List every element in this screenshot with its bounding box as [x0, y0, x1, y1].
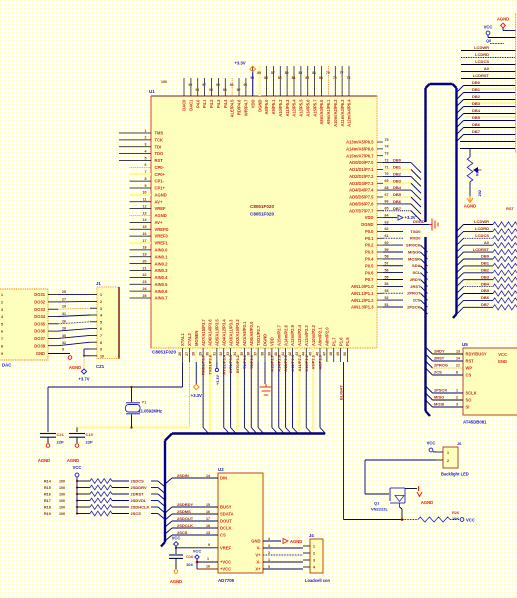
- svg-text:2: 2: [447, 459, 449, 463]
- svg-text:16: 16: [206, 565, 210, 569]
- svg-text:9: 9: [1, 352, 3, 356]
- svg-text:R14: R14: [44, 480, 52, 484]
- svg-text:48: 48: [329, 352, 333, 356]
- svg-text:AIN1.2/P1.2: AIN1.2/P1.2: [351, 298, 374, 303]
- ic U2 right pins: [251, 537, 270, 572]
- svg-text:2PSCK: 2PSCK: [407, 304, 420, 309]
- svg-text:DB6: DB6: [481, 295, 490, 300]
- svg-text:DB3: DB3: [481, 274, 490, 279]
- svg-text:P0.3: P0.3: [365, 250, 374, 255]
- svg-text:2CS: 2CS: [413, 298, 421, 303]
- svg-text:16: 16: [143, 232, 147, 236]
- svg-text:DAC0: DAC0: [182, 99, 187, 111]
- svg-text:A15/P5.7: A15/P5.7: [312, 99, 317, 117]
- svg-text:A15/P2.7: A15/P2.7: [269, 354, 274, 371]
- svg-text:WR/P4.7: WR/P4.7: [243, 99, 248, 116]
- svg-text:100: 100: [161, 80, 167, 84]
- svg-text:53: 53: [385, 289, 389, 293]
- svg-text:BUSY: BUSY: [220, 505, 232, 510]
- svg-text:31: 31: [212, 352, 216, 356]
- svg-text:AIN0.4: AIN0.4: [155, 275, 169, 280]
- svg-text:Backlight LED: Backlight LED: [441, 472, 469, 477]
- svg-text:AGND: AGND: [170, 579, 182, 584]
- svg-text:DB7: DB7: [472, 129, 481, 134]
- svg-text:4: 4: [1, 315, 3, 319]
- svg-text:AV+: AV+: [155, 199, 163, 204]
- svg-text:P0.4: P0.4: [365, 257, 374, 262]
- capacitor C19 22P: [69, 428, 94, 445]
- svg-text:MONEN: MONEN: [194, 331, 199, 346]
- svg-text:AD7/A15/P3.7: AD7/A15/P3.7: [201, 319, 206, 346]
- ic U1 top pins 100-76: [161, 66, 352, 127]
- svg-text:15: 15: [143, 225, 147, 229]
- svg-text:10K: 10K: [452, 516, 459, 521]
- svg-text:ALE/P4.5: ALE/P4.5: [230, 99, 235, 118]
- svg-text:R19: R19: [44, 512, 51, 516]
- lcd module edge cut off: [516, 14, 517, 152]
- svg-text:DB5: DB5: [393, 192, 402, 197]
- svg-text:76: 76: [347, 76, 351, 80]
- svg-text:100: 100: [59, 512, 65, 516]
- svg-text:51: 51: [385, 303, 389, 307]
- svg-text:21: 21: [143, 266, 147, 270]
- svg-text:AGND: AGND: [155, 213, 167, 218]
- svg-text:5: 5: [268, 565, 270, 569]
- svg-text:V-: V-: [257, 546, 262, 551]
- svg-text:P1.7: P1.7: [331, 337, 336, 346]
- svg-text:1: 1: [100, 293, 102, 297]
- svg-text:TCK: TCK: [155, 137, 164, 142]
- svg-text:X-: X-: [256, 560, 261, 565]
- svg-text:A13/P5.5: A13/P5.5: [299, 99, 304, 117]
- resistor array wire DB7 to lcd: [457, 302, 517, 314]
- svg-text:AD7705: AD7705: [218, 578, 235, 583]
- svg-text:1: 1: [268, 558, 270, 562]
- svg-text:14: 14: [143, 218, 147, 222]
- svg-text:C8051F020: C8051F020: [152, 350, 176, 355]
- power port +3.3V on U1 VDD right: [383, 215, 416, 220]
- svg-text:202: 202: [478, 190, 482, 196]
- svg-text:100: 100: [59, 506, 65, 510]
- svg-text:GND: GND: [36, 351, 45, 356]
- svg-text:97: 97: [202, 83, 206, 87]
- resistor array wire DB6 to lcd: [457, 295, 517, 307]
- svg-text:32: 32: [62, 341, 66, 345]
- svg-text:A15m/P2.7: A15m/P2.7: [276, 324, 281, 346]
- svg-text:DB0: DB0: [481, 254, 490, 259]
- svg-text:CP1+: CP1+: [155, 186, 166, 191]
- svg-text:DB7: DB7: [481, 302, 490, 307]
- svg-text:47: 47: [322, 352, 326, 356]
- wire XTAL1 net: [48, 362, 183, 432]
- svg-text:26: 26: [62, 319, 66, 323]
- svg-text:2SDDRV: 2SDDRV: [131, 485, 147, 490]
- svg-text:9: 9: [208, 543, 210, 547]
- svg-text:J1: J1: [96, 281, 101, 286]
- svg-text:GND: GND: [498, 359, 507, 364]
- svg-text:SDATA: SDATA: [220, 512, 234, 517]
- svg-text:A10m/P2.2: A10m/P2.2: [311, 324, 316, 346]
- svg-text:96: 96: [209, 88, 213, 92]
- resistor array wire LCDRST to lcd: [457, 247, 517, 259]
- svg-text:2SDOUT: 2SDOUT: [177, 516, 194, 521]
- svg-text:A0: A0: [484, 240, 490, 245]
- svg-text:TXD1/P3.6: TXD1/P3.6: [208, 354, 213, 374]
- svg-text:R18: R18: [44, 506, 51, 510]
- svg-text:AIN1.1/P1.1: AIN1.1/P1.1: [351, 291, 374, 296]
- svg-text:AD6/A14/P3.6: AD6/A14/P3.6: [208, 319, 213, 346]
- svg-text:+3.3V: +3.3V: [191, 393, 202, 398]
- svg-text:AGND: AGND: [421, 500, 433, 505]
- svg-text:INT1/P3.3: INT1/P3.3: [228, 354, 233, 373]
- svg-text:A11m/A3/P6.3: A11m/A3/P6.3: [340, 99, 345, 127]
- svg-text:A10/P2.2: A10/P2.2: [304, 354, 309, 371]
- svg-text:VREF0: VREF0: [155, 234, 169, 239]
- svg-text:91: 91: [244, 83, 248, 87]
- svg-text:DB4: DB4: [472, 108, 481, 113]
- digital ground symbol below U1: [260, 362, 273, 395]
- power port +3.3V top of U1: [234, 61, 255, 97]
- ic U5 left pins with bus entries: [426, 347, 487, 410]
- svg-text:2SDMS: 2SDMS: [177, 509, 191, 514]
- svg-text:AD3/A11/P3.3: AD3/A11/P3.3: [228, 319, 233, 346]
- svg-text:A13/P2.5: A13/P2.5: [283, 354, 288, 371]
- svg-text:100: 100: [59, 493, 65, 497]
- capacitor C21 22P: [40, 432, 65, 445]
- wires U2 to loadcell connector: [263, 548, 303, 569]
- svg-text:RDY/BUSY: RDY/BUSY: [466, 352, 487, 357]
- power port AGND below potentiometer: [464, 196, 476, 209]
- svg-text:A9/P2.1: A9/P2.1: [311, 354, 316, 369]
- svg-text:LCDRST: LCDRST: [473, 247, 490, 252]
- svg-text:5: 5: [1, 322, 3, 326]
- svg-text:P4.4: P4.4: [223, 99, 228, 108]
- svg-text:A12/P5.4: A12/P5.4: [292, 99, 297, 117]
- svg-text:7: 7: [1, 337, 3, 341]
- svg-text:5: 5: [100, 320, 102, 324]
- resistor R16 100: [44, 492, 165, 501]
- resistor array wire DB0 to lcd: [457, 254, 517, 266]
- svg-text:TMS: TMS: [155, 131, 164, 136]
- resistor R19 100: [44, 511, 165, 520]
- svg-text:J4: J4: [309, 533, 314, 538]
- svg-text:AIN0.1: AIN0.1: [155, 254, 169, 259]
- svg-text:AIN0.6: AIN0.6: [155, 289, 169, 294]
- power port VCC to U2 +VCC pins: [193, 549, 218, 570]
- svg-text:7: 7: [100, 334, 102, 338]
- svg-text:+3.3V: +3.3V: [216, 375, 220, 385]
- svg-text:AD4/D4/P7.4: AD4/D4/P7.4: [349, 188, 374, 193]
- svg-text:3: 3: [268, 544, 270, 548]
- svg-text:A11/P5.3: A11/P5.3: [285, 99, 290, 117]
- svg-text:2SCS: 2SCS: [131, 511, 142, 516]
- svg-text:DAC1: DAC1: [188, 99, 193, 111]
- svg-text:SO: SO: [466, 398, 473, 403]
- capacitor C10 104 on VREF: [169, 548, 194, 569]
- svg-text:DO31: DO31: [34, 292, 45, 297]
- svg-text:V+: V+: [255, 553, 261, 558]
- wire DAC GND to AGND port: [48, 348, 81, 371]
- svg-text:AGND: AGND: [290, 539, 302, 544]
- svg-text:AD7/D7/P7.7: AD7/D7/P7.7: [349, 208, 374, 213]
- svg-text:AD1/D1/P7.1: AD1/D1/P7.1: [349, 167, 374, 172]
- svg-text:2RST: 2RST: [410, 284, 421, 289]
- svg-text:2SDCLK: 2SDCLK: [177, 523, 193, 528]
- svg-text:DAC: DAC: [2, 363, 11, 368]
- svg-text:P1.6: P1.6: [338, 337, 343, 346]
- svg-text:1: 1: [1, 293, 3, 297]
- svg-text:8: 8: [145, 177, 147, 181]
- svg-text:DO35: DO35: [34, 321, 45, 326]
- svg-text:2RST: 2RST: [434, 356, 445, 361]
- svg-text:DB1: DB1: [393, 165, 402, 170]
- svg-text:2DRST: 2DRST: [131, 492, 145, 497]
- svg-text:13: 13: [206, 531, 210, 535]
- svg-text:LCDWR: LCDWR: [474, 45, 489, 50]
- svg-text:99: 99: [189, 83, 193, 87]
- svg-text:9: 9: [62, 348, 64, 352]
- svg-text:DB7: DB7: [393, 206, 402, 211]
- svg-text:SI: SI: [466, 405, 470, 410]
- svg-text:CS: CS: [220, 533, 226, 538]
- svg-text:38: 38: [260, 352, 264, 356]
- svg-text:VDD: VDD: [365, 215, 374, 220]
- svg-text:81: 81: [312, 71, 316, 75]
- svg-text:61: 61: [385, 234, 389, 238]
- svg-text:DB2: DB2: [481, 268, 490, 273]
- ic U1 right pins: [346, 138, 388, 310]
- svg-text:AGND: AGND: [497, 17, 509, 22]
- svg-text:104: 104: [186, 562, 193, 567]
- svg-text:84: 84: [292, 76, 296, 80]
- svg-text:85: 85: [285, 71, 289, 75]
- ic U2 AD7705 body: [218, 467, 263, 583]
- svg-text:52: 52: [385, 296, 389, 300]
- svg-text:31: 31: [62, 312, 66, 316]
- svg-text:2PROG: 2PROG: [434, 363, 448, 368]
- ic U5 AT45DB081 dataflash body: [462, 342, 517, 425]
- svg-text:8: 8: [1, 344, 3, 348]
- svg-text:9: 9: [145, 184, 147, 188]
- power port +3.3V below U1 MONEN pin: [191, 362, 202, 398]
- svg-text:24: 24: [143, 287, 147, 291]
- svg-text:2CS: 2CS: [434, 370, 442, 375]
- resistor R15 100: [44, 485, 165, 494]
- svg-text:DGND: DGND: [413, 219, 425, 224]
- svg-text:VCC: VCC: [427, 441, 436, 446]
- svg-text:94: 94: [223, 88, 227, 92]
- ic DAC partial at left edge: [0, 289, 48, 368]
- svg-text:22P: 22P: [86, 440, 93, 445]
- svg-text:AIN0.2: AIN0.2: [155, 261, 169, 266]
- svg-text:A11m/P2.3: A11m/P2.3: [304, 325, 309, 346]
- svg-text:DB1: DB1: [481, 261, 490, 266]
- svg-text:C21: C21: [57, 432, 65, 437]
- svg-text:RST: RST: [506, 206, 515, 211]
- svg-text:DB2: DB2: [472, 94, 481, 99]
- svg-text:27: 27: [62, 297, 66, 301]
- svg-text:DO32: DO32: [34, 300, 45, 305]
- svg-text:A12/P2.4: A12/P2.4: [290, 354, 295, 371]
- svg-text:AD0/D0/P7.0: AD0/D0/P7.0: [349, 160, 374, 165]
- resistor array wire LCDCS to lcd: [457, 233, 517, 245]
- svg-text:1: 1: [145, 129, 147, 133]
- power port AGND below C19: [67, 444, 79, 463]
- power port AGND below C21: [38, 444, 50, 463]
- svg-text:DGND: DGND: [263, 334, 268, 346]
- svg-text:DB6: DB6: [393, 199, 402, 204]
- svg-text:16: 16: [206, 510, 210, 514]
- svg-text:87: 87: [271, 71, 275, 75]
- svg-text:63: 63: [385, 220, 389, 224]
- svg-text:2SDIN: 2SDIN: [177, 473, 189, 478]
- svg-text:9: 9: [100, 348, 102, 352]
- svg-text:LCDCS: LCDCS: [475, 59, 489, 64]
- power port VCC top right: [484, 25, 517, 38]
- svg-text:2: 2: [100, 300, 102, 304]
- svg-text:DB1: DB1: [472, 87, 481, 92]
- svg-text:100: 100: [59, 499, 65, 503]
- svg-text:DIN: DIN: [220, 476, 227, 481]
- svg-text:VREFD: VREFD: [155, 227, 169, 232]
- resistor R17 100: [44, 498, 165, 507]
- svg-text:MISO0: MISO0: [408, 249, 421, 254]
- svg-text:23: 23: [143, 280, 147, 284]
- svg-text:13: 13: [456, 350, 460, 354]
- lcd module connector wires top right: [457, 45, 517, 148]
- svg-text:DB2: DB2: [393, 171, 402, 176]
- svg-text:DO37: DO37: [34, 336, 45, 341]
- svg-text:DO38: DO38: [34, 343, 45, 348]
- svg-text:28: 28: [62, 327, 66, 331]
- svg-text:6: 6: [1, 330, 3, 334]
- svg-text:DGND: DGND: [361, 222, 373, 227]
- svg-text:29: 29: [62, 305, 66, 309]
- svg-text:C19: C19: [86, 432, 94, 437]
- power port AGND below C10: [170, 570, 182, 584]
- svg-text:A8m/P2.0: A8m/P2.0: [325, 327, 330, 346]
- svg-text:C8051F020: C8051F020: [250, 212, 274, 217]
- svg-text:P1.5: P1.5: [345, 337, 350, 346]
- svg-text:2SDVDL: 2SDVDL: [131, 498, 147, 503]
- svg-text:AD3/D3/P7.3: AD3/D3/P7.3: [349, 181, 374, 186]
- wires DAC to J1: [48, 290, 90, 346]
- svg-text:A10/P5.2: A10/P5.2: [278, 99, 283, 117]
- svg-text:P4.3: P4.3: [216, 99, 221, 108]
- svg-text:80: 80: [319, 76, 323, 80]
- svg-text:2PROT: 2PROT: [407, 291, 421, 296]
- resistor array wire DB4 to lcd: [457, 281, 517, 293]
- svg-text:77: 77: [340, 71, 344, 75]
- svg-text:DO34: DO34: [34, 314, 45, 319]
- svg-text:RST: RST: [155, 158, 164, 163]
- svg-text:C8051F020: C8051F020: [250, 204, 274, 209]
- svg-text:AGND: AGND: [464, 204, 476, 209]
- svg-text:55: 55: [385, 275, 389, 279]
- svg-text:2: 2: [456, 396, 458, 400]
- svg-text:VCC: VCC: [193, 549, 202, 554]
- svg-text:57: 57: [385, 262, 389, 266]
- svg-text:A14m/P2.6: A14m/P2.6: [283, 324, 288, 346]
- svg-text:66: 66: [385, 200, 389, 204]
- power port VCC to U2 VREF: [172, 536, 218, 549]
- svg-text:4: 4: [145, 149, 147, 153]
- resistor array wire A0 to lcd: [457, 240, 517, 252]
- svg-text:LCDRD: LCDRD: [475, 226, 489, 231]
- svg-text:P0.7: P0.7: [365, 277, 374, 282]
- svg-text:AGND: AGND: [38, 458, 50, 463]
- svg-text:P0.0: P0.0: [365, 229, 374, 234]
- svg-text:88: 88: [264, 76, 268, 80]
- wire backlight to MOSFET: [365, 460, 436, 494]
- svg-text:75: 75: [385, 138, 389, 142]
- svg-text:TDO: TDO: [155, 151, 165, 156]
- svg-text:1: 1: [313, 545, 315, 549]
- svg-text:VCC: VCC: [484, 25, 493, 30]
- svg-text:2SCS: 2SCS: [177, 530, 188, 535]
- svg-text:A13m/P2.5: A13m/P2.5: [290, 324, 295, 346]
- svg-text:100: 100: [59, 486, 65, 490]
- svg-text:7: 7: [145, 170, 147, 174]
- svg-text:R31: R31: [476, 169, 480, 176]
- svg-text:DB6: DB6: [472, 122, 481, 127]
- svg-text:8: 8: [456, 371, 458, 375]
- svg-text:J6: J6: [457, 441, 462, 446]
- resistor array wire DB3 to lcd: [457, 274, 517, 286]
- svg-text:AT45DB081: AT45DB081: [463, 420, 487, 425]
- svg-text:P0.1: P0.1: [365, 236, 374, 241]
- svg-text:SDA: SDA: [412, 263, 421, 268]
- svg-text:62: 62: [385, 227, 389, 231]
- wire XTAL2 net yellow: [77, 362, 190, 428]
- svg-text:AIN1.0/P1.0: AIN1.0/P1.0: [351, 284, 374, 289]
- svg-text:11: 11: [143, 198, 147, 202]
- resistor R18 100: [44, 505, 165, 514]
- svg-text:6: 6: [145, 163, 147, 167]
- wire U2 GND to AGND port: [263, 539, 302, 545]
- svg-text:10: 10: [143, 191, 147, 195]
- svg-text:VCC: VCC: [466, 518, 475, 523]
- net label RST cut right edge: [506, 206, 515, 211]
- svg-text:+VCC: +VCC: [220, 560, 231, 565]
- svg-text:A15m/A7/P6.7: A15m/A7/P6.7: [346, 153, 374, 158]
- svg-text:74: 74: [385, 145, 389, 149]
- svg-text:3: 3: [145, 143, 147, 147]
- svg-text:RXD1/P3.7: RXD1/P3.7: [201, 354, 206, 375]
- wires U1 bottom pins to data bus: [201, 354, 326, 433]
- connector J6 backlight: [436, 441, 469, 477]
- svg-text:P4.2: P4.2: [209, 99, 214, 108]
- svg-text:P0.6: P0.6: [365, 270, 374, 275]
- svg-text:TDI: TDI: [155, 144, 162, 149]
- svg-text:A9m/P2.1: A9m/P2.1: [318, 327, 323, 346]
- svg-text:P0.2: P0.2: [365, 243, 374, 248]
- svg-text:3: 3: [100, 307, 102, 311]
- svg-text:14: 14: [456, 357, 460, 361]
- svg-text:AIN0.3: AIN0.3: [155, 268, 169, 273]
- svg-text:1: 1: [207, 557, 209, 561]
- ground symbol on U1 DGND right: [383, 219, 438, 231]
- svg-text:AD5/D5/P7.5: AD5/D5/P7.5: [349, 195, 374, 200]
- svg-text:A14/P5.6: A14/P5.6: [305, 99, 310, 117]
- svg-text:28: 28: [192, 352, 196, 356]
- svg-text:U2: U2: [218, 467, 224, 472]
- svg-text:P0.5: P0.5: [365, 263, 374, 268]
- svg-text:AD4/A12/P3.4: AD4/A12/P3.4: [221, 319, 226, 346]
- svg-text:15: 15: [206, 503, 210, 507]
- svg-text:22P: 22P: [57, 440, 64, 445]
- lcd bus arch: [426, 84, 457, 318]
